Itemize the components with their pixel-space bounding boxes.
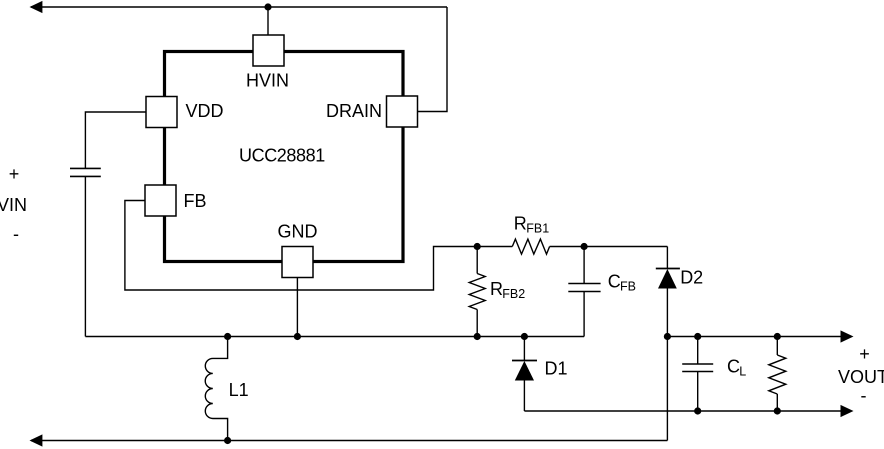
svg-text:FB: FB <box>620 279 636 293</box>
node RFB2 bottom <box>474 333 481 340</box>
node CL bottom <box>694 407 701 414</box>
svg-text:R: R <box>490 279 503 299</box>
svg-text:D2: D2 <box>680 268 703 288</box>
svg-text:VIN: VIN <box>0 195 27 215</box>
pin FB box <box>145 185 176 216</box>
svg-text:L1: L1 <box>229 380 249 400</box>
resistor RFB1 <box>512 239 549 254</box>
IC U1 UCC28881 body <box>165 52 404 262</box>
wire input capacitor down to mid rail <box>84 176 86 336</box>
svg-text:GND: GND <box>278 222 318 242</box>
wire FB pin left-down-right-up to feedback rail <box>125 201 477 291</box>
label CFB <box>608 272 636 294</box>
label RFB1 <box>514 214 549 236</box>
wire feedback rail RFB2 node to RFB1 <box>477 246 512 248</box>
node GND wire junction <box>294 333 301 340</box>
label CL <box>727 357 746 379</box>
capacitor CIN plates <box>70 168 101 176</box>
wire top rail VIN+ <box>31 6 447 8</box>
wire bottom rail VIN- <box>31 440 667 442</box>
capacitor CFB <box>568 247 600 337</box>
wire feedback top rail <box>550 246 668 248</box>
svg-text:R: R <box>514 214 527 234</box>
svg-text:C: C <box>727 357 740 377</box>
svg-text:VOUT: VOUT <box>838 367 884 387</box>
svg-text:FB2: FB2 <box>502 287 525 301</box>
node CFB top <box>581 243 588 250</box>
diode D2 <box>656 247 680 441</box>
svg-text:-: - <box>861 386 867 406</box>
label RFB2 <box>490 279 525 301</box>
wire junction down to HVIN pin <box>267 7 269 36</box>
pin VDD box <box>146 97 177 128</box>
node RFB2 top <box>474 243 481 250</box>
diode D1 <box>512 337 537 412</box>
svg-text:FB1: FB1 <box>526 221 549 235</box>
svg-text:HVIN: HVIN <box>246 71 289 91</box>
arrow VIN+ (left) <box>30 1 43 13</box>
svg-text:DRAIN: DRAIN <box>326 101 382 121</box>
wire output minus rail <box>524 410 841 412</box>
arrow VOUT- (right) <box>841 405 854 417</box>
capacitor CL <box>682 337 713 412</box>
pin HVIN box <box>253 35 284 66</box>
svg-text:L: L <box>739 365 746 379</box>
wire top rail down to DRAIN pin <box>418 7 448 112</box>
svg-text:C: C <box>608 272 621 292</box>
wire output plus rail <box>667 336 841 338</box>
node load resistor bottom <box>774 407 781 414</box>
inductor L1 <box>205 337 227 441</box>
arrow VOUT+ (right) <box>841 330 854 342</box>
node CL top <box>694 333 701 340</box>
svg-text:FB: FB <box>184 191 207 211</box>
svg-text:+: + <box>9 164 20 184</box>
svg-text:+: + <box>859 344 870 364</box>
pin GND box <box>282 247 313 278</box>
pin DRAIN box <box>387 96 418 127</box>
resistor RLOAD <box>769 337 786 412</box>
node D2 cathode rail junction <box>664 333 671 340</box>
resistor RFB2 <box>469 247 485 337</box>
wire VDD pin to input capacitor <box>85 112 146 168</box>
svg-text:UCC28881: UCC28881 <box>239 146 325 166</box>
svg-text:-: - <box>13 224 19 244</box>
node junction top rail to HVIN <box>264 3 271 10</box>
wire mid rail (switch node) <box>85 336 584 338</box>
node L1 bottom <box>224 437 231 444</box>
arrow VIN- (left) <box>30 434 43 446</box>
node D1 top <box>521 333 528 340</box>
wire GND pin down to mid rail <box>296 278 298 337</box>
node load resistor top <box>774 333 781 340</box>
node L1 top <box>224 333 231 340</box>
svg-text:D1: D1 <box>545 359 568 379</box>
svg-text:VDD: VDD <box>186 101 224 121</box>
